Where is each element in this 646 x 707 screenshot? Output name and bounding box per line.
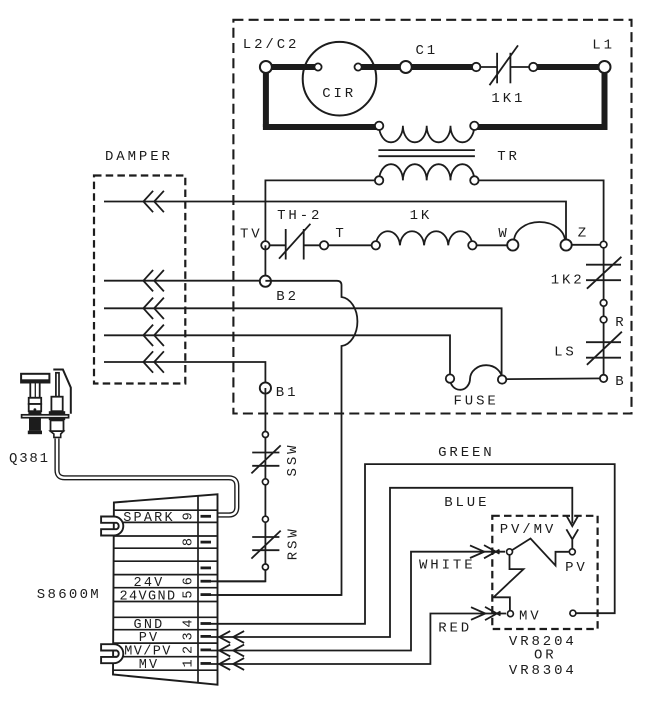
wire contact to 1K1 right node	[510, 66, 533, 68]
damper connector chevrons row4	[143, 325, 153, 346]
node 1K coil left	[372, 241, 380, 249]
connector node chain 4	[262, 564, 268, 570]
wire damper row5 to B1	[104, 362, 265, 388]
relay coil 1K	[376, 231, 473, 245]
node below Z	[600, 241, 607, 248]
igniter right collar	[49, 411, 65, 415]
wire MV/PV to WHITE	[211, 552, 505, 651]
thick wire 1K1 right node to L1	[533, 64, 604, 70]
ignition cable inner white	[57, 439, 237, 516]
node valve common	[570, 610, 576, 616]
chevrons MV row	[219, 658, 230, 670]
svg-text:RED: RED	[438, 620, 472, 636]
node fuse right	[498, 375, 506, 383]
connector node chain 1	[262, 432, 268, 438]
wire TV to TH-2	[265, 244, 285, 246]
svg-text:5: 5	[182, 591, 197, 599]
wire PV to BLUE	[211, 488, 572, 637]
damper connector chevrons row1	[143, 191, 153, 212]
module terminal column line	[197, 496, 199, 683]
node PV	[569, 549, 575, 555]
node B1	[260, 382, 271, 393]
svg-text:TH-2: TH-2	[277, 208, 322, 224]
svg-text:DAMPER: DAMPER	[105, 149, 173, 165]
svg-text:2: 2	[182, 646, 197, 654]
wire 1K1 left node to contact	[476, 66, 497, 68]
svg-text:TV: TV	[240, 227, 263, 243]
node TV	[261, 241, 269, 249]
wire right chain vertical	[603, 245, 605, 379]
svg-text:TR: TR	[497, 149, 520, 165]
contact SSW bars	[252, 452, 279, 454]
igniter lower cylinder	[29, 418, 41, 431]
wire secondary left to TV	[265, 180, 379, 245]
igniter electrode rod	[56, 373, 59, 397]
svg-text:WHITE: WHITE	[419, 557, 476, 573]
svg-text:S8600M: S8600M	[37, 587, 101, 603]
wire MV to RED	[211, 614, 506, 665]
node C1	[400, 61, 412, 73]
CIR left terminal	[314, 63, 321, 70]
svg-text:T: T	[335, 226, 346, 242]
svg-text:RSW: RSW	[286, 526, 302, 560]
arrow BLUE down into PV	[567, 516, 579, 526]
svg-text:6: 6	[182, 577, 197, 585]
node transformer primary left	[375, 122, 383, 130]
arrow WHITE into PV/MV	[470, 545, 484, 558]
thick wire L2/C2 to CIR left terminal	[266, 64, 318, 70]
wire B2 to 24VGND terminal with crossover hop	[211, 281, 357, 595]
node W	[507, 239, 518, 250]
svg-text:SSW: SSW	[285, 443, 301, 477]
wire Z to right node	[566, 244, 604, 246]
svg-text:R: R	[615, 315, 626, 331]
node 1K coil right	[468, 241, 476, 249]
valve switch zigzag lower	[494, 552, 524, 611]
damper connector chevrons row5	[143, 351, 153, 372]
wire T to 1K coil	[324, 244, 376, 246]
igniter electrode body	[51, 397, 62, 412]
thick wire L2/C2 down	[263, 64, 269, 127]
wire TV to B2	[264, 245, 266, 281]
module terminal screws	[201, 515, 212, 518]
node B2	[260, 276, 271, 287]
svg-text:1K2: 1K2	[551, 273, 585, 289]
thick wire L1 down	[602, 64, 608, 130]
contact 1K2 slash	[587, 257, 622, 289]
wire fuse to B	[502, 377, 603, 380]
CIR right terminal	[355, 63, 362, 70]
contact RSW bars	[252, 536, 279, 538]
chevrons MV/PV row	[219, 645, 230, 657]
jumper arc W to Z	[514, 222, 565, 241]
arrow RED into MV	[471, 607, 485, 620]
igniter electrode tip	[51, 431, 64, 437]
svg-text:BLUE: BLUE	[444, 495, 489, 511]
svg-text:SPARK: SPARK	[123, 511, 175, 526]
thick wire C1 to 1K1 left node	[406, 64, 476, 70]
node fuse left	[446, 374, 454, 382]
svg-text:CIR: CIR	[322, 86, 356, 102]
contact 1K2 bars	[586, 264, 621, 266]
node transformer secondary right	[470, 176, 478, 184]
svg-text:1K: 1K	[410, 208, 433, 224]
svg-text:OR: OR	[534, 648, 557, 664]
wire damper row3 to fuse right	[104, 308, 502, 379]
svg-text:LS: LS	[554, 345, 577, 361]
main control-box dashed border	[233, 20, 631, 414]
module plug lower	[101, 644, 123, 663]
thick wire CIR right terminal to node C1	[358, 64, 406, 70]
wire 24VGND terminal	[211, 594, 342, 596]
svg-text:9: 9	[182, 512, 197, 520]
transformer core lines	[378, 149, 475, 151]
node T	[320, 241, 328, 249]
thick wire bottom left to transformer primary	[263, 124, 379, 130]
contact 1K1 bars	[496, 53, 498, 84]
wire GND to GREEN loop	[211, 464, 615, 624]
wire B1 chain down to 24V terminal	[211, 388, 265, 581]
igniter below-plate collars	[29, 418, 41, 420]
svg-text:4: 4	[182, 619, 197, 627]
svg-text:FUSE: FUSE	[454, 394, 499, 410]
svg-text:B: B	[615, 374, 626, 390]
wire damper row4 to fuse left	[104, 335, 450, 378]
wire damper row1 to Z	[104, 202, 566, 241]
module outline	[113, 494, 218, 684]
svg-text:C1: C1	[416, 43, 439, 59]
transformer TR secondary coil	[379, 164, 474, 180]
svg-text:W: W	[498, 226, 509, 242]
igniter electrode lower	[51, 420, 64, 431]
wire 1K coil to W	[472, 244, 512, 246]
svg-text:L2/C2: L2/C2	[243, 37, 300, 53]
svg-text:L1: L1	[592, 37, 615, 53]
damper connector chevrons row2	[143, 270, 153, 291]
svg-text:3: 3	[182, 632, 197, 640]
thick wire bottom right to transformer primary	[474, 124, 604, 130]
circulator CIR circle	[303, 42, 377, 116]
svg-text:B1: B1	[276, 385, 299, 401]
wire damper row2 to B2	[104, 280, 265, 282]
damper dashed box	[94, 176, 185, 384]
node R	[600, 316, 607, 323]
svg-text:MV: MV	[139, 658, 160, 673]
node above R	[600, 300, 607, 307]
transformer TR primary coil	[379, 126, 474, 143]
wire TH-2 to T	[304, 244, 324, 246]
node MV	[507, 611, 513, 617]
damper connector chevrons row3	[143, 298, 153, 319]
fuse element	[450, 365, 502, 390]
contact SSW slash	[251, 445, 280, 473]
svg-text:8: 8	[182, 538, 197, 546]
svg-text:1: 1	[182, 659, 197, 667]
node L2/C2	[260, 61, 272, 73]
contact LS bars	[586, 341, 621, 343]
chevrons PV row	[219, 631, 230, 643]
gas valve VR dashed box	[492, 516, 597, 629]
svg-text:GREEN: GREEN	[438, 445, 495, 461]
wire 24V terminal to RSW chain	[211, 580, 265, 582]
node B	[600, 375, 607, 382]
igniter mounting plate	[22, 415, 69, 418]
svg-text:1K1: 1K1	[491, 91, 525, 107]
igniter bracket	[53, 370, 71, 414]
contact RSW slash	[251, 531, 280, 559]
igniter base	[28, 431, 42, 435]
module row lines	[114, 509, 218, 511]
contact LS slash	[587, 332, 622, 365]
contact TH-2 slash	[279, 224, 310, 259]
svg-text:24VGND: 24VGND	[119, 589, 176, 604]
arrow into SPARK terminal	[203, 512, 213, 519]
svg-text:B2: B2	[276, 289, 299, 305]
ignition cable outer	[57, 439, 237, 516]
node 1K1 right	[529, 63, 537, 71]
node 1K1 left	[472, 63, 480, 71]
module plug upper	[101, 517, 123, 536]
contact 1K1 slash	[490, 45, 519, 85]
node PV/MV	[507, 549, 513, 555]
connector node chain 3	[262, 516, 268, 522]
contact TH-2 bars	[285, 229, 287, 260]
svg-text:MV: MV	[519, 609, 542, 625]
svg-text:Z: Z	[578, 226, 589, 242]
valve switch zigzag upper	[510, 539, 569, 566]
svg-text:Q381: Q381	[9, 451, 50, 467]
svg-text:PV: PV	[565, 560, 588, 576]
connector node chain 2	[262, 479, 268, 485]
igniter pilot burner body	[21, 374, 49, 383]
node L1	[599, 61, 611, 73]
svg-text:PV/MV: PV/MV	[500, 522, 557, 538]
svg-text:VR8304: VR8304	[509, 663, 577, 679]
wire secondary right to Z branch	[474, 180, 603, 244]
node transformer secondary left	[375, 176, 383, 184]
PV terminal Y symbol	[566, 529, 578, 549]
node Z	[561, 239, 572, 250]
node transformer primary right	[470, 122, 478, 130]
